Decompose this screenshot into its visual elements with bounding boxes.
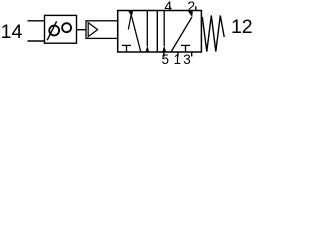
- solenoid symbol large circle: [49, 26, 59, 36]
- right cell flow path 4-5 arrow down: [163, 11, 165, 47]
- pilot triangle: [88, 23, 97, 37]
- left cell blocked port T: [122, 44, 131, 46]
- svg-text:12: 12: [231, 16, 253, 38]
- left cell flow path arrow down: [146, 11, 148, 47]
- wire solenoid terminal lower: [28, 40, 45, 42]
- left cell pilot spur line: [128, 14, 131, 30]
- port 1 stub: [177, 52, 179, 57]
- port 4 stub: [169, 6, 171, 10]
- svg-text:3: 3: [183, 52, 191, 65]
- return spring: [202, 16, 224, 52]
- right cell flow path 1-2 arrow up: [171, 17, 192, 52]
- svg-text:1: 1: [173, 52, 181, 65]
- svg-text:2: 2: [187, 0, 195, 14]
- svg-text:5: 5: [161, 52, 169, 65]
- wire solenoid terminal upper: [28, 20, 45, 22]
- solenoid box U1: [45, 15, 77, 43]
- wire solenoid to pilot: [77, 29, 87, 31]
- port 3 stub: [191, 52, 193, 57]
- port 2 stub: [195, 6, 197, 10]
- svg-text:14: 14: [1, 21, 23, 43]
- valve position divider: [156, 11, 158, 53]
- right cell blocked port T: [181, 44, 190, 46]
- pilot actuator box: [86, 21, 118, 39]
- solenoid symbol slash: [47, 21, 56, 40]
- svg-text:4: 4: [164, 0, 172, 14]
- port 5 stub: [163, 52, 165, 57]
- valve body: [118, 11, 202, 53]
- solenoid symbol small circle: [62, 23, 71, 32]
- left cell flow path 1-4 arrow up: [132, 17, 141, 52]
